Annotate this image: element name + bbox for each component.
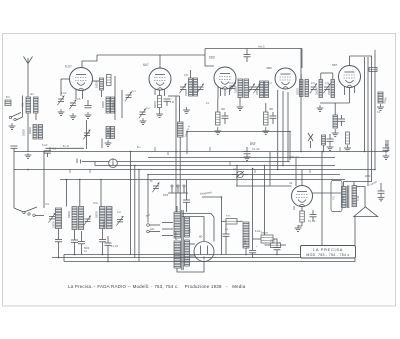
capacitor C4 <box>85 106 92 108</box>
wire rail x371 <box>371 56 373 182</box>
resistor R1 <box>107 75 112 86</box>
varcap C6 <box>139 109 146 119</box>
svg-text:C.2: C.2 <box>146 107 150 110</box>
svg-text:La Precisa. - FADA RADIO --: La Precisa. - FADA RADIO -- Modelli: - 7… <box>68 284 246 289</box>
svg-text:300: 300 <box>221 108 226 111</box>
svg-text:50000: 50000 <box>154 101 157 108</box>
svg-text:20000: 20000 <box>256 88 259 95</box>
speaker cone <box>354 207 378 217</box>
bus stub <box>154 147 156 152</box>
trimmer T1b <box>197 84 204 94</box>
IF transformer T3 winding b <box>305 80 309 97</box>
capacitor C1 left <box>44 151 51 153</box>
switch S2 <box>23 207 37 216</box>
ground below L12 <box>332 129 339 136</box>
volume pot cluster <box>171 185 173 187</box>
svg-text:220: 220 <box>150 228 155 231</box>
wire T4 top stub <box>176 206 178 212</box>
antenna <box>24 57 33 64</box>
svg-text:B.C.: B.C. <box>6 96 11 99</box>
wire V3 legs <box>220 89 222 97</box>
trimmer T3a <box>310 84 317 94</box>
switch mains stubs <box>162 222 173 224</box>
svg-text:C.10: C.10 <box>357 195 360 201</box>
wire rail x375 <box>374 50 376 170</box>
junction <box>107 261 109 263</box>
bus bottom y261 <box>64 261 355 263</box>
wire L11 down <box>245 248 247 255</box>
junction <box>175 151 177 153</box>
junction <box>323 151 325 153</box>
junction <box>102 254 104 256</box>
svg-text:25000: 25000 <box>185 89 188 96</box>
resistor R5 <box>261 235 273 243</box>
capacitor C7 <box>164 99 171 101</box>
svg-text:C.6: C.6 <box>325 82 329 85</box>
wire R5 leads <box>253 238 261 240</box>
wire x264 to R5 <box>264 234 266 236</box>
coil L10a <box>100 207 106 229</box>
bus stub <box>89 170 91 174</box>
transformer T4 secondary upper <box>185 217 190 237</box>
wire R4 leads <box>221 220 226 222</box>
svg-text:al tel.: al tel. <box>250 143 256 146</box>
bus wire y169 <box>14 169 375 171</box>
svg-text:C.5: C.5 <box>311 82 315 85</box>
wire V2 bottom <box>159 90 161 96</box>
AVC line <box>187 131 290 133</box>
coil L6 right <box>378 92 383 103</box>
IF transformer T2 secondary a <box>260 81 264 98</box>
svg-text:MOD. 753 - 754 - 754 c: MOD. 753 - 754 - 754 c <box>306 253 349 257</box>
svg-text:e.c.: e.c. <box>225 228 229 231</box>
wire drop to tube V3 <box>205 49 214 67</box>
wire V5 legs <box>344 87 346 96</box>
junction <box>58 257 60 259</box>
coil L1a antenna transformer <box>26 97 31 113</box>
output transformer T5 core <box>346 186 348 209</box>
svg-text:primario: primario <box>175 231 178 240</box>
wire T5 secondary loop <box>357 187 366 207</box>
wire T5 top leads <box>343 182 345 187</box>
wire V1 right lead <box>93 80 100 82</box>
svg-text:20000: 20000 <box>328 88 331 95</box>
label box LA PRECISA <box>301 246 356 259</box>
svg-text:470: 470 <box>184 74 189 77</box>
svg-text:0.1 mF: 0.1 mF <box>111 246 119 248</box>
svg-text:O.M.: O.M. <box>93 202 99 205</box>
wire L10 bottom <box>102 229 104 240</box>
svg-text:2000: 2000 <box>365 175 371 178</box>
bus stub <box>209 147 211 152</box>
wire V6 top loop b <box>182 217 204 241</box>
svg-text:20000: 20000 <box>235 86 238 93</box>
ground on L1 drop <box>25 153 32 158</box>
ground below R8 <box>262 127 269 134</box>
capacitor C22 electrolytic <box>274 248 281 250</box>
wire T1 top <box>190 70 192 78</box>
transformer T4 primary upper <box>174 212 181 238</box>
wire tensione lead <box>202 197 221 255</box>
junction <box>354 254 356 256</box>
wire osc x179 <box>179 96 181 122</box>
svg-text:6D6: 6D6 <box>209 56 215 60</box>
svg-text:260: 260 <box>293 205 296 210</box>
junction <box>100 179 102 181</box>
svg-text:300 V: 300 V <box>189 226 192 233</box>
tube V7 41 output <box>292 186 313 207</box>
ground below C6 <box>140 118 147 124</box>
junction <box>289 131 291 133</box>
resistor R8 below V4 <box>264 112 269 125</box>
bus bottom y257 <box>52 257 318 259</box>
capacitor C26 below V4 <box>270 116 277 118</box>
svg-text:F.C.: F.C. <box>333 195 336 200</box>
IF transformer T3 winding d <box>331 80 335 98</box>
svg-text:50000: 50000 <box>342 196 345 203</box>
wire T4 sec to rect a <box>190 243 196 245</box>
tube V1 6.D7 <box>70 68 93 91</box>
bus wire y174 <box>148 174 340 176</box>
resistor R2 below V2 <box>158 96 162 108</box>
transformer T4 secondary lower <box>185 240 190 266</box>
junction <box>186 131 188 133</box>
ground below C24 <box>378 197 385 201</box>
wire x301 vert <box>300 49 302 152</box>
capacitor C16 <box>78 242 85 244</box>
svg-text:1 M: 1 M <box>170 101 174 104</box>
trimmer T1a <box>179 84 186 94</box>
junction <box>179 169 181 171</box>
varcap C29 <box>83 130 90 140</box>
bus stub <box>69 170 71 174</box>
svg-text:350: 350 <box>269 108 274 111</box>
wire bus vert x95 <box>94 162 96 166</box>
coil L7 oscillator <box>178 122 184 137</box>
IF transformer T2 primary a <box>238 79 243 98</box>
svg-text:C.4: C.4 <box>268 82 272 85</box>
wire drop x237 <box>236 166 238 187</box>
IF transformer T1 secondary <box>194 78 198 96</box>
capacitor C19 above T4 <box>183 200 190 202</box>
resistor R6 cathode <box>300 211 305 222</box>
resistor R10 cluster <box>346 132 350 144</box>
coil L9b <box>79 207 84 230</box>
varcap C28 mid <box>152 183 159 193</box>
svg-text:Bassa: Bassa <box>261 232 268 235</box>
wire L5 drop <box>101 139 103 149</box>
wire V4 down c <box>287 92 289 162</box>
svg-text:C.10: C.10 <box>353 197 356 203</box>
svg-text:pot.: pot. <box>233 168 237 171</box>
wire T2 down <box>239 98 241 105</box>
choke L11 filter <box>243 222 249 248</box>
wire speaker to bus <box>354 217 356 262</box>
trimmer T2a <box>229 83 236 93</box>
svg-text:0.1 mF: 0.1 mF <box>308 220 316 223</box>
wire drop x44 <box>43 152 45 209</box>
wire drop x322 <box>321 152 323 246</box>
wire left edge vert <box>13 152 15 209</box>
wire drop x66 <box>66 180 68 207</box>
coil L1b antenna transformer <box>34 97 39 113</box>
wire V2 top cap <box>159 55 161 68</box>
wire drop x270 <box>269 152 271 186</box>
ground switch S1 <box>9 123 16 129</box>
potentiometer P1 <box>237 171 243 177</box>
coil L3 RF choke <box>100 78 104 90</box>
junction <box>276 254 278 256</box>
wire V7 loop <box>236 185 292 187</box>
wire R7 top <box>217 99 219 112</box>
wire V6 top loop a <box>182 214 214 242</box>
switch S1 wave band <box>9 113 22 121</box>
trimmer C12 <box>84 216 91 226</box>
junction <box>175 169 177 171</box>
bus wire y151 <box>14 151 388 153</box>
coil L4a <box>106 97 110 113</box>
svg-text:0.1 mF: 0.1 mF <box>252 148 260 151</box>
wire bb left <box>63 255 65 262</box>
wire V2 legs <box>154 90 156 96</box>
svg-text:50000: 50000 <box>29 127 32 134</box>
svg-text:6A7: 6A7 <box>143 63 149 67</box>
svg-text:25000: 25000 <box>316 88 319 95</box>
wire L3 down <box>101 90 103 97</box>
tube V4 6B6 <box>275 68 296 89</box>
junction <box>27 169 29 171</box>
wire R8 top <box>265 103 267 112</box>
wire V5 top cap <box>349 56 351 66</box>
capacitor C8 right <box>383 148 390 150</box>
svg-text:5000: 5000 <box>163 195 169 197</box>
ground below T3 <box>317 105 324 111</box>
bus stub <box>309 170 311 174</box>
transformer T4 primary lower <box>174 241 181 268</box>
svg-text:O.C.: O.C. <box>45 203 50 206</box>
ground below C8 <box>383 154 390 160</box>
capacitor C9 left edge <box>11 146 18 148</box>
wire x122 vert <box>121 90 123 118</box>
coil L2a <box>33 125 37 140</box>
ground below C4 <box>85 112 92 118</box>
bus stub <box>339 147 341 152</box>
tone switch cluster <box>308 133 313 141</box>
coil L5a <box>106 127 110 139</box>
ground below R7 <box>214 127 221 134</box>
resistor R7 below V3 <box>216 112 221 125</box>
junction <box>236 165 238 167</box>
svg-text:25000: 25000 <box>23 129 26 136</box>
capacitor C27 <box>338 119 345 121</box>
wire rail right end <box>387 140 389 152</box>
coil L13 cluster <box>322 135 326 145</box>
resistor R3 on rails <box>369 68 377 72</box>
ground below C30 <box>327 145 334 150</box>
varcap C11 <box>48 213 55 223</box>
capacitor C21 electrolytic <box>249 251 256 253</box>
resistor R9 left of box <box>271 243 281 248</box>
svg-text:6B7: 6B7 <box>332 63 338 67</box>
wire L13 drop <box>323 145 325 152</box>
pilot lamp <box>109 159 118 168</box>
junction <box>252 168 254 170</box>
svg-text:B +: B + <box>137 146 141 149</box>
ground below L5 <box>105 140 112 146</box>
bus stub <box>49 147 51 152</box>
AVC drop left <box>186 132 188 155</box>
wire R9 leads <box>265 244 271 246</box>
wire top bus right segment <box>205 48 302 50</box>
coil L2b <box>39 125 43 140</box>
junction <box>74 254 76 256</box>
svg-text:20000: 20000 <box>102 101 105 108</box>
svg-text:Ant.: Ant. <box>30 93 35 96</box>
svg-text:6.D7: 6.D7 <box>65 65 72 69</box>
IF transformer T3 winding c <box>319 80 323 98</box>
wire T4 bottom <box>177 261 204 273</box>
junction <box>245 254 247 256</box>
svg-text:C.2: C.2 <box>117 211 121 214</box>
wire V7 plate <box>313 192 342 194</box>
junction <box>130 151 132 153</box>
wire antenna lead <box>27 75 29 97</box>
coil L9a <box>72 207 77 230</box>
IF transformer T2 secondary b <box>265 81 269 98</box>
wire drop at x=302 <box>301 49 303 69</box>
tube V5 6B7 <box>339 66 361 88</box>
svg-text:C.3: C.3 <box>229 82 233 85</box>
svg-text:6B6: 6B6 <box>267 66 273 70</box>
svg-text:50000: 50000 <box>68 211 71 218</box>
wire top bus left segment <box>97 54 205 56</box>
svg-text:300 ohm: 300 ohm <box>290 156 299 159</box>
trimmer C5 <box>125 92 132 102</box>
ground below T2 <box>237 104 244 110</box>
wire V2 plate <box>168 95 180 97</box>
ground below C10 <box>244 154 251 160</box>
bus wire y157 <box>148 157 335 159</box>
coil L12 below V5 <box>333 115 338 128</box>
svg-text:80: 80 <box>199 235 203 239</box>
junction <box>364 151 366 153</box>
svg-text:C.1: C.1 <box>132 90 136 93</box>
ground below T1 <box>183 107 190 113</box>
bus stub <box>167 152 169 156</box>
IF transformer T2 primary b <box>244 79 249 98</box>
varcap C13 <box>116 216 123 226</box>
junction <box>282 165 284 167</box>
trimmer T2 mid b <box>253 84 260 94</box>
wire drop x296 <box>295 158 297 186</box>
bus stub <box>229 161 231 166</box>
coil L5b <box>111 127 115 139</box>
svg-text:4 mF: 4 mF <box>61 92 67 95</box>
wire rail x368 <box>367 57 369 186</box>
capacitor C20 <box>223 234 230 236</box>
wire L9 bottom <box>74 230 76 241</box>
wire V4 down a <box>277 90 279 170</box>
AVC drop right <box>289 132 291 161</box>
capacitor C10 mid <box>244 152 251 154</box>
wire h148 <box>46 147 85 149</box>
svg-text:50000: 50000 <box>96 211 99 218</box>
wire drop x101 <box>100 180 102 207</box>
capacitor C17 <box>99 240 106 242</box>
wire coil L1 down <box>27 113 29 152</box>
bus wire y165 <box>95 165 335 167</box>
junction <box>138 169 140 171</box>
lamp feed ticks <box>76 159 78 164</box>
ground below C3 <box>70 113 77 119</box>
wire V1 left lead <box>61 78 70 80</box>
svg-text:8 mF: 8 mF <box>255 230 261 233</box>
IF transformer T1 primary <box>189 78 193 96</box>
bus bottom y254 <box>64 254 355 256</box>
output transformer T5 primary <box>342 187 347 208</box>
junction <box>134 165 136 167</box>
wire L8 bottom <box>58 229 60 240</box>
wire coil L1b down <box>35 113 37 120</box>
junction <box>321 151 323 153</box>
junction <box>374 169 376 171</box>
wire drop x302 grid <box>301 170 303 186</box>
junction <box>147 174 149 176</box>
junction <box>79 179 81 181</box>
field coil enclosure <box>331 181 342 212</box>
junction <box>66 179 68 181</box>
tube V6 80 rectifier <box>194 242 214 262</box>
resistor R4 filter <box>226 219 237 225</box>
IF transformer T3 winding a <box>300 80 304 97</box>
junction <box>277 169 279 171</box>
ground below L6 <box>377 104 384 110</box>
junction <box>264 165 266 167</box>
ground below R10 <box>344 145 351 151</box>
capacitor on top bus <box>244 55 251 57</box>
wire drop x134 <box>134 166 136 258</box>
wire V1 legs <box>75 89 77 100</box>
svg-text:41: 41 <box>289 181 293 185</box>
svg-text:e.m.: e.m. <box>226 215 231 218</box>
ground below R2 <box>156 108 163 117</box>
svg-text:5000: 5000 <box>84 248 90 250</box>
bus wire y161 right <box>117 161 290 163</box>
bus stub <box>254 170 256 174</box>
capacitor C18 <box>105 243 112 245</box>
svg-text:50000: 50000 <box>297 88 300 95</box>
wire drop x139 <box>138 170 140 262</box>
svg-text:LA PRECISA: LA PRECISA <box>313 248 343 252</box>
capacitor C14 <box>55 240 62 242</box>
wire drop x252 <box>252 169 254 251</box>
svg-text:cm: cm <box>84 251 87 253</box>
svg-text:imp.: imp. <box>244 239 247 244</box>
svg-text:25000: 25000 <box>103 221 106 228</box>
capacitor C24 8uF <box>378 191 385 193</box>
capacitor C30 cluster <box>327 139 334 141</box>
ground below R6 <box>295 225 302 231</box>
svg-text:50000: 50000 <box>96 81 99 88</box>
svg-text:Am.5: Am.5 <box>258 45 265 49</box>
trimmer T3b <box>323 84 330 94</box>
coil L4b <box>111 97 115 113</box>
svg-text:2012: 2012 <box>270 241 276 243</box>
wire S2 to bank <box>14 208 23 212</box>
wire V4 down b <box>282 91 284 166</box>
capacitor C15 <box>71 240 78 242</box>
svg-text:20000: 20000 <box>113 101 116 108</box>
